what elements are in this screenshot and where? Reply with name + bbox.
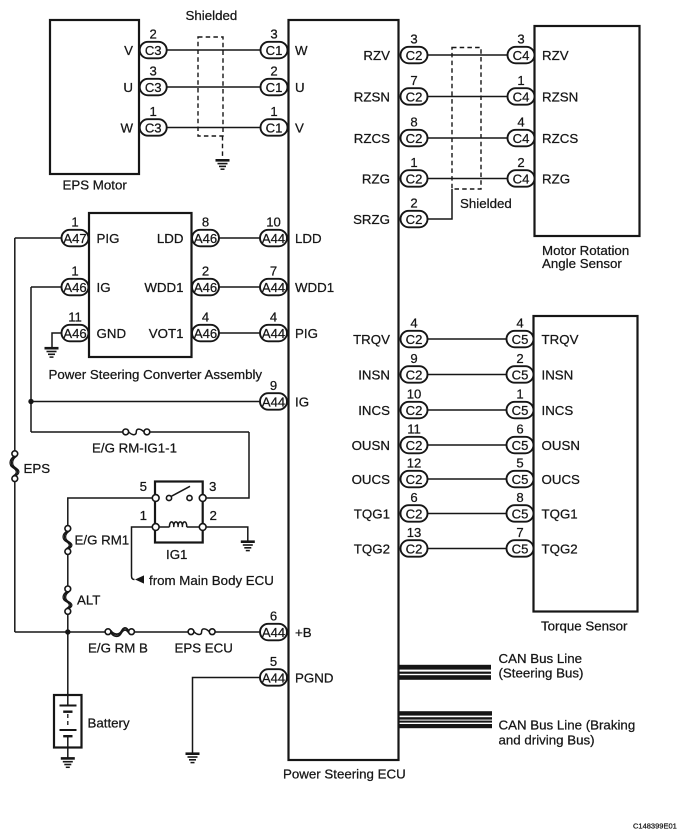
svg-text:WDD1: WDD1 <box>144 280 183 295</box>
connector C2 pin 8 (RZCS) <box>401 115 428 147</box>
svg-text:INSN: INSN <box>358 368 390 383</box>
CAN bus line (Steering Bus) <box>399 665 492 680</box>
svg-text:INCS: INCS <box>358 403 390 418</box>
svg-text:1: 1 <box>150 104 157 119</box>
svg-text:4: 4 <box>270 310 277 325</box>
svg-text:WDD1: WDD1 <box>295 280 334 295</box>
svg-text:3: 3 <box>209 479 216 494</box>
connector C5 pin 2 (INSN) <box>507 351 534 383</box>
ground (motor wire shield) <box>216 160 230 169</box>
relay IG1 terminal 1 <box>140 508 160 530</box>
connector A44 pin 7 (WDD1) <box>260 264 287 296</box>
svg-text:9: 9 <box>410 351 417 366</box>
svg-text:and driving Bus): and driving Bus) <box>499 733 595 748</box>
Torque Sensor box <box>534 316 638 612</box>
connector C1 pin 1 (V phase) <box>261 104 288 136</box>
svg-text:EPS: EPS <box>24 461 51 476</box>
wire SRZG to shield <box>428 189 453 219</box>
svg-text:TQG1: TQG1 <box>354 507 390 522</box>
relay IG1 terminal 3 <box>199 479 216 501</box>
svg-text:2: 2 <box>270 64 277 79</box>
wire VOT1 (converter to ECU) <box>219 332 260 334</box>
svg-text:INCS: INCS <box>542 403 574 418</box>
svg-text:C5: C5 <box>512 472 529 487</box>
svg-text:W: W <box>295 43 308 58</box>
Motor Rotation Angle Sensor label <box>542 243 629 271</box>
svg-text:A46: A46 <box>194 231 217 246</box>
wire PIG feed to converter <box>15 237 62 239</box>
svg-text:4: 4 <box>517 115 524 130</box>
svg-text:C2: C2 <box>406 438 423 453</box>
svg-text:PGND: PGND <box>295 671 333 686</box>
wire RZCS (ECU to rotation sensor) <box>428 137 508 139</box>
connector C2 pin 6 (TQG1) <box>401 490 428 522</box>
wire OUCS (ECU to torque sensor) <box>428 478 507 480</box>
svg-text:C4: C4 <box>513 89 530 104</box>
connector C2 pin 12 (OUCS) <box>401 456 428 488</box>
svg-text:C1: C1 <box>266 80 283 95</box>
svg-text:LDD: LDD <box>295 231 322 246</box>
ground (battery) <box>61 758 75 767</box>
wire INSN (ECU to torque sensor) <box>428 374 507 376</box>
svg-text:from Main Body ECU: from Main Body ECU <box>149 573 274 588</box>
junction node (battery / +B rail) <box>65 629 70 634</box>
svg-text:EPS Motor: EPS Motor <box>63 177 128 192</box>
relay IG1 terminal 2 <box>199 508 217 530</box>
wire IG feed to converter <box>31 286 62 288</box>
connector C2 pin 3 (RZV) <box>401 32 428 64</box>
svg-text:C2: C2 <box>406 541 423 556</box>
shield (dashed) around rotation sensor wires <box>452 48 481 190</box>
svg-text:5: 5 <box>140 479 147 494</box>
svg-text:1: 1 <box>140 508 147 523</box>
svg-text:OUSN: OUSN <box>542 438 580 453</box>
svg-text:12: 12 <box>407 456 422 471</box>
svg-text:C4: C4 <box>513 171 530 186</box>
svg-text:U: U <box>295 80 305 95</box>
svg-text:(Steering Bus): (Steering Bus) <box>499 666 584 681</box>
wire IG1 relay feed (vertical from IG node) <box>30 287 32 432</box>
svg-text:C2: C2 <box>406 89 423 104</box>
arrowhead (from Main Body ECU) <box>135 575 144 583</box>
fusible link E/G RM B <box>105 628 134 637</box>
wire phase V (EPS motor to ECU) <box>167 49 261 51</box>
connector C4 pin 1 (RZSN) <box>508 73 535 105</box>
wire WDD1 (converter to ECU) <box>219 286 260 288</box>
connector C5 pin 7 (TQG2) <box>507 525 534 557</box>
svg-text:W: W <box>120 121 133 136</box>
wire PIG rail (left vertical, battery to PIG/+B) <box>14 238 16 632</box>
svg-text:2: 2 <box>202 264 209 279</box>
wire RZG (ECU to rotation sensor) <box>428 178 508 180</box>
connector C2 pin 4 (TRQV) <box>401 316 428 348</box>
connector A46 pin 2 (WDD1) <box>192 264 219 296</box>
wire relay pin 5 to battery rail <box>68 498 153 695</box>
wire INCS (ECU to torque sensor) <box>428 409 507 411</box>
ground (IG1 coil) <box>241 542 255 551</box>
connector C4 pin 4 (RZCS) <box>508 115 535 147</box>
svg-text:6: 6 <box>270 609 277 624</box>
connector A47 pin 1 (PIG) <box>62 215 89 247</box>
svg-text:3: 3 <box>517 32 524 47</box>
svg-text:C4: C4 <box>513 131 530 146</box>
svg-text:OUCS: OUCS <box>542 472 581 487</box>
svg-text:3: 3 <box>270 27 277 42</box>
svg-text:4: 4 <box>410 316 417 331</box>
connector C5 pin 1 (INCS) <box>507 387 534 419</box>
svg-text:C5: C5 <box>512 403 529 418</box>
fuse EPS ECU <box>188 629 215 635</box>
svg-text:TRQV: TRQV <box>353 332 390 347</box>
connector C3 pin 1 (W phase) <box>140 104 167 136</box>
wire +B feed <box>15 631 260 633</box>
svg-text:C2: C2 <box>406 472 423 487</box>
wire relay coil pin 2 to ground <box>206 527 248 541</box>
svg-text:Power Steering ECU: Power Steering ECU <box>283 767 406 782</box>
svg-text:A46: A46 <box>63 326 86 341</box>
svg-text:C2: C2 <box>406 48 423 63</box>
svg-text:+B: +B <box>295 625 312 640</box>
svg-text:U: U <box>123 80 133 95</box>
svg-text:C1: C1 <box>266 120 283 135</box>
svg-text:RZCS: RZCS <box>542 131 578 146</box>
svg-text:8: 8 <box>516 490 523 505</box>
wire relay coil pin 1 to Main Body ECU <box>132 527 153 580</box>
svg-text:2: 2 <box>410 196 417 211</box>
connector C4 pin 3 (RZV) <box>508 32 535 64</box>
battery cells <box>60 695 77 748</box>
svg-text:C2: C2 <box>406 367 423 382</box>
svg-text:13: 13 <box>407 525 422 540</box>
svg-text:IG: IG <box>97 280 111 295</box>
Power Steering Converter Assembly box <box>89 213 192 357</box>
fuse E/G RM-IG1-1 <box>123 429 150 435</box>
connector A46 pin 4 (VOT1) <box>192 310 219 342</box>
svg-text:VOT1: VOT1 <box>149 326 184 341</box>
svg-text:RZG: RZG <box>362 172 390 187</box>
svg-text:C5: C5 <box>512 332 529 347</box>
relay IG1 terminal 5 <box>140 479 160 501</box>
svg-text:Angle Sensor: Angle Sensor <box>542 256 622 271</box>
svg-text:A44: A44 <box>262 394 285 409</box>
svg-text:C2: C2 <box>406 403 423 418</box>
wire phase W (EPS motor to ECU) <box>167 127 261 129</box>
svg-text:V: V <box>124 43 133 58</box>
svg-text:1: 1 <box>517 73 524 88</box>
svg-text:4: 4 <box>516 316 523 331</box>
svg-text:LDD: LDD <box>157 231 184 246</box>
svg-text:TRQV: TRQV <box>542 332 579 347</box>
connector C1 pin 3 (W phase) <box>261 27 288 59</box>
svg-text:9: 9 <box>270 378 277 393</box>
relay IG1 box <box>155 482 203 543</box>
svg-text:10: 10 <box>407 387 422 402</box>
CAN bus line (Braking and driving Bus) <box>399 711 493 728</box>
fusible link EPS <box>10 451 19 482</box>
svg-text:PIG: PIG <box>97 231 120 246</box>
svg-text:C5: C5 <box>512 438 529 453</box>
wire TQG2 (ECU to torque sensor) <box>428 548 507 550</box>
connector C2 pin 13 (TQG2) <box>401 525 428 557</box>
wire TQG1 (ECU to torque sensor) <box>428 513 507 515</box>
svg-text:1: 1 <box>516 387 523 402</box>
svg-text:1: 1 <box>270 104 277 119</box>
svg-text:A47: A47 <box>63 231 86 246</box>
wire RZSN (ECU to rotation sensor) <box>428 96 508 98</box>
Power Steering ECU box <box>289 20 399 760</box>
svg-text:TQG2: TQG2 <box>542 542 578 557</box>
svg-text:11: 11 <box>68 310 82 325</box>
svg-text:PIG: PIG <box>295 326 318 341</box>
svg-text:10: 10 <box>266 215 281 230</box>
svg-text:EPS ECU: EPS ECU <box>175 640 233 655</box>
svg-text:C5: C5 <box>512 367 529 382</box>
connector A44 pin 6 (+B) <box>260 609 287 641</box>
svg-text:CAN Bus Line: CAN Bus Line <box>499 651 583 666</box>
svg-text:C3: C3 <box>145 80 162 95</box>
svg-text:TQG2: TQG2 <box>354 542 390 557</box>
svg-text:A46: A46 <box>194 326 217 341</box>
svg-text:1: 1 <box>71 215 78 230</box>
wire E/G RM-IG1-1 run <box>31 432 249 498</box>
svg-text:Battery: Battery <box>88 715 130 730</box>
battery box <box>54 695 82 748</box>
svg-text:A44: A44 <box>262 326 285 341</box>
svg-text:V: V <box>295 121 304 136</box>
svg-text:RZV: RZV <box>363 48 390 63</box>
svg-text:RZV: RZV <box>542 48 569 63</box>
svg-text:7: 7 <box>410 73 417 88</box>
wire IG (to ECU pin 9) <box>31 401 260 403</box>
svg-text:C2: C2 <box>406 171 423 186</box>
connector C5 pin 8 (TQG1) <box>507 490 534 522</box>
connector C3 pin 3 (U phase) <box>140 64 167 96</box>
svg-text:RZG: RZG <box>542 172 570 187</box>
connector C4 pin 2 (RZG) <box>508 155 535 187</box>
wire converter GND to ground <box>52 333 62 348</box>
svg-text:SRZG: SRZG <box>353 212 390 227</box>
svg-text:E/G RM B: E/G RM B <box>88 640 148 655</box>
connector A44 pin 9 (IG) <box>260 378 287 410</box>
svg-text:Torque Sensor: Torque Sensor <box>541 619 628 634</box>
connector A46 pin 8 (LDD) <box>192 215 219 247</box>
svg-text:3: 3 <box>410 32 417 47</box>
connector A44 pin 4 (PIG) <box>260 310 287 342</box>
wire LDD (converter to ECU) <box>219 237 260 239</box>
svg-text:2: 2 <box>210 508 217 523</box>
svg-text:E/G RM1: E/G RM1 <box>75 532 130 547</box>
svg-text:A44: A44 <box>262 625 285 640</box>
svg-text:C5: C5 <box>512 541 529 556</box>
svg-text:E/G RM-IG1-1: E/G RM-IG1-1 <box>92 440 177 455</box>
svg-text:1: 1 <box>71 264 78 279</box>
connector C2 pin 11 (OUSN) <box>401 422 428 454</box>
connector C2 pin 7 (RZSN) <box>401 73 428 105</box>
svg-text:ALT: ALT <box>77 593 100 608</box>
connector A46 pin 1 (IG) <box>62 264 89 296</box>
ground (PGND) <box>186 754 200 763</box>
svg-text:RZSN: RZSN <box>354 90 390 105</box>
connector C3 pin 2 (V phase) <box>140 27 167 59</box>
fusible link E/G RM1 <box>63 526 72 555</box>
svg-text:INSN: INSN <box>542 368 574 383</box>
svg-text:Power Steering Converter Assem: Power Steering Converter Assembly <box>49 367 263 382</box>
EPS Motor box <box>50 20 139 174</box>
svg-text:TQG1: TQG1 <box>542 507 578 522</box>
svg-text:7: 7 <box>270 264 277 279</box>
svg-text:RZCS: RZCS <box>354 131 390 146</box>
svg-text:OUCS: OUCS <box>352 472 391 487</box>
svg-text:A44: A44 <box>262 280 285 295</box>
junction node (IG branch) <box>28 399 33 404</box>
svg-text:A44: A44 <box>262 670 285 685</box>
svg-text:C2: C2 <box>406 506 423 521</box>
svg-text:8: 8 <box>410 115 417 130</box>
svg-text:C3: C3 <box>145 43 162 58</box>
svg-text:2: 2 <box>517 155 524 170</box>
svg-text:8: 8 <box>202 215 209 230</box>
connector A46 pin 11 (GND) <box>62 310 89 342</box>
ground (converter GND) <box>45 348 59 357</box>
svg-text:A44: A44 <box>262 231 285 246</box>
svg-text:1: 1 <box>410 155 417 170</box>
svg-text:Shielded: Shielded <box>186 8 238 23</box>
relay IG1 coil <box>159 522 199 527</box>
svg-text:11: 11 <box>407 422 421 437</box>
CAN Bus Line (Steering Bus) label <box>499 651 584 681</box>
wire battery to ground <box>67 748 69 759</box>
svg-text:Shielded: Shielded <box>460 196 512 211</box>
connector C5 pin 5 (OUCS) <box>507 456 534 488</box>
svg-text:C2: C2 <box>406 212 423 227</box>
relay IG1 switch contacts <box>166 486 192 500</box>
svg-text:GND: GND <box>97 326 127 341</box>
connector A44 pin 5 (PGND) <box>260 654 287 686</box>
svg-text:6: 6 <box>410 490 417 505</box>
connector C2 pin 9 (INSN) <box>401 351 428 383</box>
connector A44 pin 10 (LDD) <box>260 215 287 247</box>
fusible link ALT <box>63 586 72 614</box>
svg-text:5: 5 <box>516 456 523 471</box>
svg-text:OUSN: OUSN <box>352 438 390 453</box>
connector C2 pin 2 (SRZG) <box>401 196 428 228</box>
svg-text:CAN Bus Line (Braking: CAN Bus Line (Braking <box>499 717 636 732</box>
svg-text:A46: A46 <box>194 280 217 295</box>
svg-text:C2: C2 <box>406 131 423 146</box>
svg-text:C4: C4 <box>513 48 530 63</box>
CAN Bus Line (Braking and driving Bus) label <box>499 717 636 747</box>
svg-text:C1: C1 <box>266 43 283 58</box>
svg-text:IG1: IG1 <box>166 547 187 562</box>
connector C5 pin 4 (TRQV) <box>507 316 534 348</box>
connector C2 pin 1 (RZG) <box>401 155 428 187</box>
wire OUSN (ECU to torque sensor) <box>428 444 507 446</box>
svg-text:2: 2 <box>150 27 157 42</box>
wire PGND to ground <box>193 678 261 754</box>
svg-text:3: 3 <box>150 64 157 79</box>
svg-text:A46: A46 <box>63 280 86 295</box>
wire phase U (EPS motor to ECU) <box>167 86 261 88</box>
svg-text:RZSN: RZSN <box>542 90 578 105</box>
svg-text:C5: C5 <box>512 506 529 521</box>
connector C1 pin 2 (U phase) <box>261 64 288 96</box>
shield (dashed) around motor phase wires <box>198 37 223 159</box>
svg-text:2: 2 <box>516 351 523 366</box>
svg-text:4: 4 <box>202 310 209 325</box>
svg-text:IG: IG <box>295 395 309 410</box>
connector C5 pin 6 (OUSN) <box>507 422 534 454</box>
svg-text:C148399E01: C148399E01 <box>633 821 677 830</box>
connector C2 pin 10 (INCS) <box>401 387 428 419</box>
svg-text:C3: C3 <box>145 120 162 135</box>
svg-text:C2: C2 <box>406 332 423 347</box>
Motor Rotation Angle Sensor box <box>535 26 640 236</box>
svg-text:5: 5 <box>270 654 277 669</box>
wire RZV (ECU to rotation sensor) <box>428 54 508 56</box>
wire TRQV (ECU to torque sensor) <box>428 338 507 340</box>
svg-text:7: 7 <box>516 525 523 540</box>
svg-text:6: 6 <box>516 422 523 437</box>
